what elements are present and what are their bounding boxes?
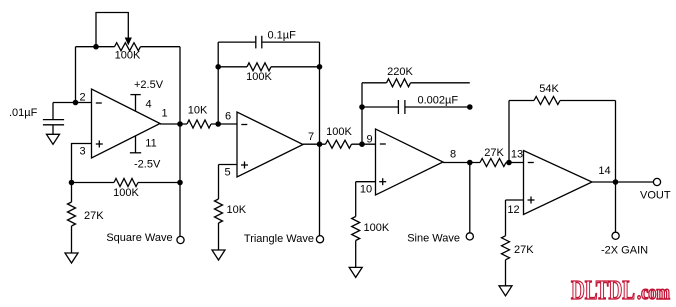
svg-text:4: 4: [145, 99, 151, 111]
svg-text:2: 2: [79, 92, 85, 104]
wire: [508, 101, 510, 163]
svg-text:11: 11: [145, 138, 156, 150]
svg-text:Square Wave: Square Wave: [106, 232, 172, 244]
resistor R4 10K: [187, 105, 211, 129]
svg-text:1: 1: [161, 108, 167, 120]
op-amp U3: [360, 129, 456, 196]
node pin13: [506, 160, 512, 166]
svg-text:9: 9: [366, 134, 372, 146]
node output U1: [177, 121, 183, 127]
wire output row2: [303, 143, 376, 145]
capacitor C3 0.002uF: [362, 95, 470, 115]
node pin2: [73, 100, 79, 106]
wire: [179, 47, 181, 124]
wire output row1: [160, 123, 237, 125]
svg-text:3: 3: [79, 146, 85, 158]
node: [359, 104, 365, 110]
svg-text:10K: 10K: [227, 204, 247, 216]
resistor R6 10K: [215, 199, 247, 250]
op-amp U2: [224, 111, 314, 179]
ground: [349, 267, 362, 277]
node wiper junction: [93, 44, 99, 50]
wire: [319, 144, 321, 235]
svg-text:Sine Wave: Sine Wave: [407, 233, 460, 245]
ground: [47, 134, 60, 144]
wire: [76, 47, 181, 103]
svg-text:27K: 27K: [84, 210, 104, 222]
svg-text:.com: .com: [637, 282, 670, 304]
svg-text:6: 6: [225, 111, 231, 123]
svg-text:100K: 100K: [364, 222, 390, 234]
wire: [361, 83, 363, 144]
svg-text:100K: 100K: [326, 126, 352, 138]
svg-text:0.002µF: 0.002µF: [418, 95, 459, 107]
resistor R12 27K: [502, 236, 535, 286]
resistor R9 100K: [352, 217, 390, 268]
wire: [319, 42, 321, 144]
terminal -2X GAIN: [601, 232, 648, 256]
node: [177, 180, 183, 186]
node output U4: [613, 179, 619, 185]
resistor R11 54K: [509, 83, 616, 105]
svg-text:54K: 54K: [539, 83, 559, 95]
wire pin12: [506, 200, 524, 236]
terminal Sine Wave: [407, 233, 473, 245]
svg-text:-2X GAIN: -2X GAIN: [601, 245, 648, 257]
resistor R3 100K: [72, 179, 181, 199]
svg-text:0.1µF: 0.1µF: [268, 30, 297, 42]
capacitor C1 .01uF: [9, 103, 64, 135]
svg-text:13: 13: [511, 149, 523, 161]
wire: [469, 163, 471, 233]
wire: [615, 101, 617, 183]
svg-text:100K: 100K: [115, 50, 141, 62]
ground: [65, 253, 78, 263]
svg-text:12: 12: [507, 204, 519, 216]
svg-text:14: 14: [598, 165, 610, 177]
svg-text:7: 7: [308, 131, 314, 143]
wire: [53, 102, 92, 104]
resistor R7 100K: [326, 126, 353, 148]
resistor R2 27K: [68, 183, 105, 254]
node output U2: [317, 141, 323, 147]
node pin6: [215, 121, 221, 127]
svg-text:100K: 100K: [113, 187, 139, 199]
wire: [615, 182, 617, 232]
node: [467, 104, 473, 110]
node: [317, 64, 323, 70]
power -2.5V pin 11: [130, 136, 161, 171]
op-amp U1: [79, 89, 167, 158]
capacitor C2 0.1uF: [218, 30, 319, 49]
resistor R8 220K: [362, 66, 470, 87]
power +2.5V pin 4: [130, 79, 163, 111]
ground: [499, 286, 512, 296]
svg-text:VOUT: VOUT: [640, 190, 671, 202]
terminal VOUT: [640, 178, 671, 201]
svg-text:-2.5V: -2.5V: [134, 159, 161, 171]
svg-text:.01µF: .01µF: [9, 107, 38, 119]
svg-text:10K: 10K: [188, 105, 208, 117]
wire pin10: [356, 182, 376, 217]
wire pin3: [72, 144, 92, 183]
wire pin5: [219, 165, 238, 200]
svg-text:5: 5: [224, 167, 230, 179]
op-amp U4: [507, 149, 610, 216]
svg-text:10: 10: [360, 184, 372, 196]
node: [215, 64, 221, 70]
svg-text:27K: 27K: [514, 244, 534, 256]
node output U3: [467, 160, 473, 166]
wire output row4: [592, 181, 653, 183]
potentiometer R1 100K: [96, 13, 141, 62]
svg-text:100K: 100K: [246, 71, 272, 83]
terminal Square Wave: [106, 232, 184, 244]
svg-text:Triangle Wave: Triangle Wave: [244, 233, 314, 245]
resistor R10 27K: [480, 147, 506, 167]
wire: [179, 124, 181, 236]
wire: [217, 42, 219, 124]
node pin9: [359, 141, 365, 147]
logo DLTDL.com watermark: [571, 275, 670, 305]
svg-text:+2.5V: +2.5V: [134, 79, 164, 91]
node: [69, 180, 75, 186]
resistor R5 100K: [218, 63, 319, 83]
svg-text:DLTDL: DLTDL: [571, 275, 635, 305]
wire output row3: [443, 162, 524, 164]
terminal Triangle Wave: [244, 233, 324, 245]
svg-text:8: 8: [450, 149, 456, 161]
svg-text:220K: 220K: [387, 66, 413, 78]
ground: [212, 250, 225, 260]
svg-text:27K: 27K: [484, 147, 504, 159]
